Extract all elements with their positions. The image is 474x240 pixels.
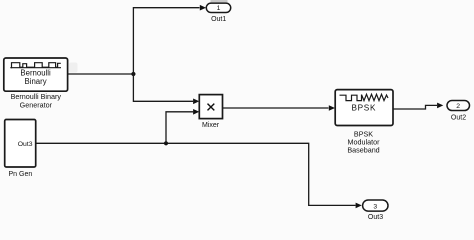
svg-text:2: 2 xyxy=(456,103,460,110)
faint watermark smudge xyxy=(69,63,78,73)
svg-text:Bernoulli Binary: Bernoulli Binary xyxy=(11,92,62,101)
block Bernoulli Binary Generator xyxy=(4,58,68,91)
svg-text:Baseband: Baseband xyxy=(347,145,379,154)
svg-text:Out1: Out1 xyxy=(211,16,226,23)
wire W5: junction B up to Mixer input 2 xyxy=(166,112,193,144)
block Mixer (product) xyxy=(199,95,222,119)
wire W3: junction A down and right to Mixer input 1 xyxy=(133,74,193,101)
node B junction dot xyxy=(164,141,168,145)
outport Out3 xyxy=(363,200,388,211)
wire W2: junction A up and right to Out1 xyxy=(133,8,199,74)
wire W7: BPSK output to Out2 xyxy=(393,105,437,109)
svg-text:Out3: Out3 xyxy=(18,141,33,148)
svg-text:3: 3 xyxy=(373,203,377,210)
svg-text:Generator: Generator xyxy=(20,101,53,110)
wire W4: Pn Gen output right, down, right to Out3 xyxy=(36,143,356,205)
svg-text:Out2: Out2 xyxy=(451,115,466,122)
svg-text:Pn Gen: Pn Gen xyxy=(9,171,33,178)
block BPSK Modulator Baseband xyxy=(335,90,393,126)
wire W1: Bernoulli output to junction A xyxy=(68,73,134,75)
block Pn Gen xyxy=(5,120,36,168)
svg-text:Mixer: Mixer xyxy=(202,122,220,129)
outport Out2 xyxy=(447,101,470,111)
outport Out1 xyxy=(206,3,230,12)
wire W6: Mixer output to BPSK input xyxy=(223,107,329,109)
artifact bar above Out1 xyxy=(211,0,228,2)
svg-text:Out3: Out3 xyxy=(368,214,383,221)
svg-text:BPSK: BPSK xyxy=(351,104,376,113)
svg-text:Binary: Binary xyxy=(25,77,47,86)
node A junction dot xyxy=(131,72,135,76)
svg-text:1: 1 xyxy=(217,5,221,12)
